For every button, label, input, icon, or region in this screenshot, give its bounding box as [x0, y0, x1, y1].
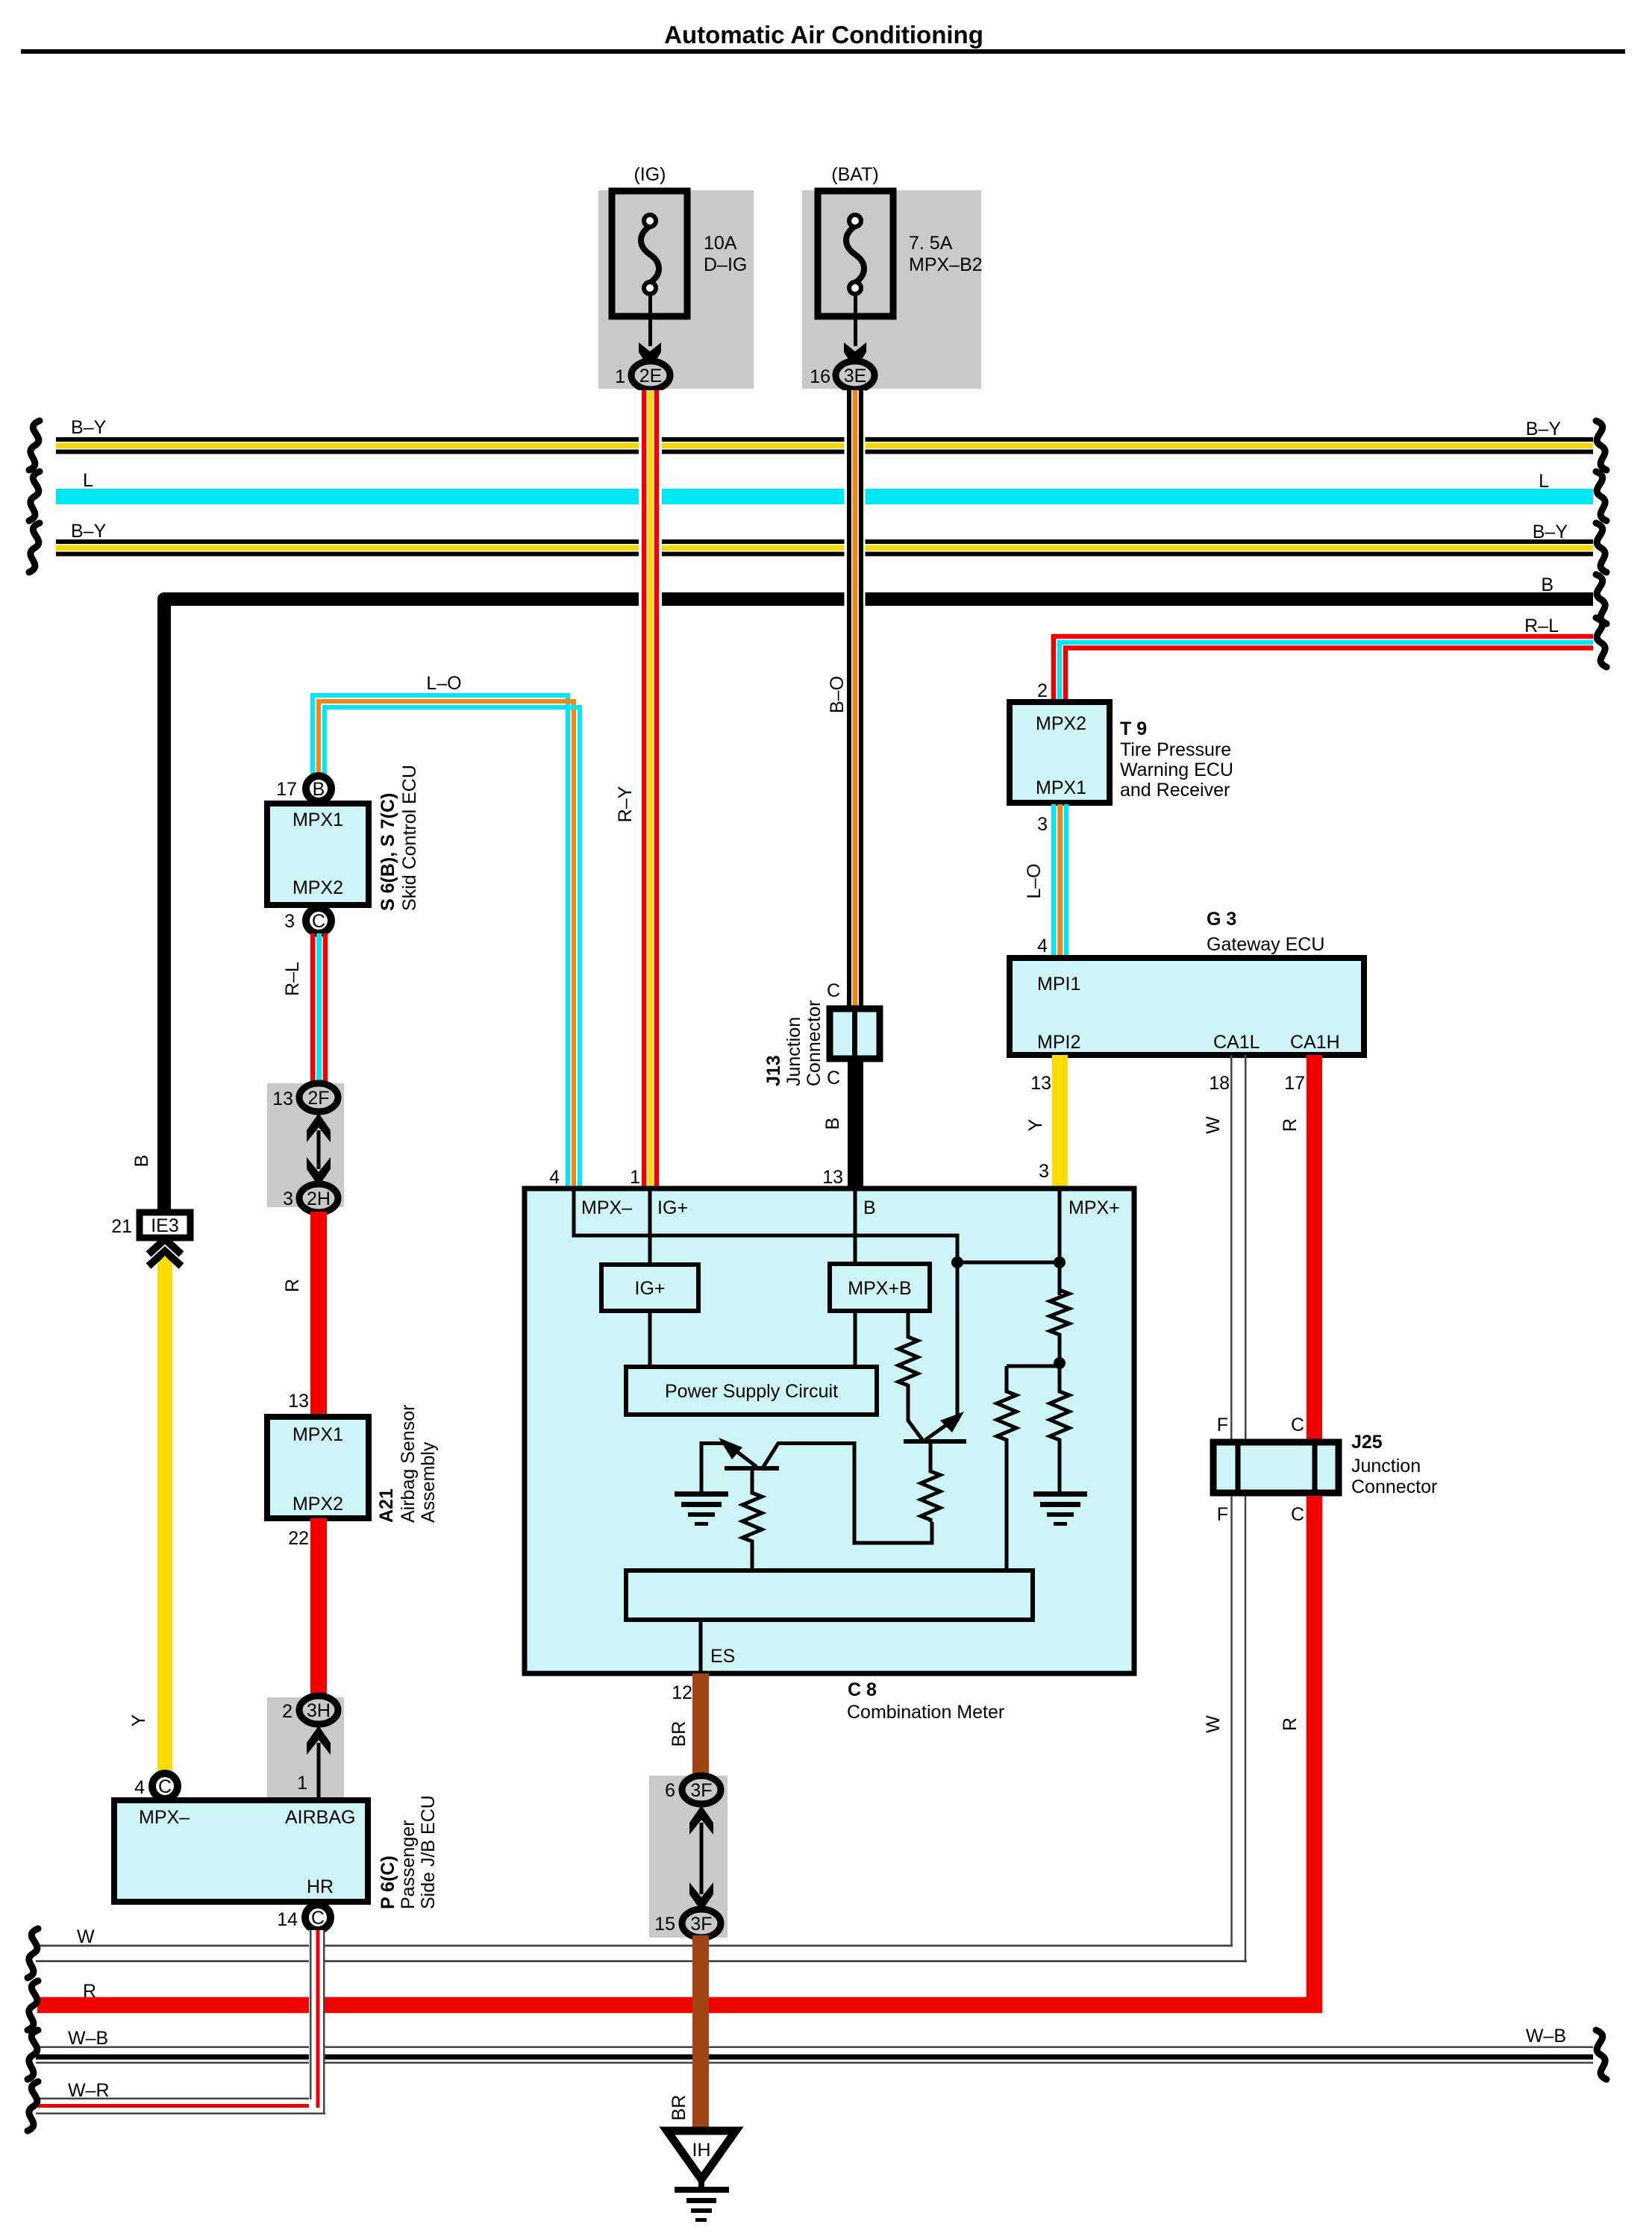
svg-text:Passenger: Passenger — [398, 1820, 419, 1909]
svg-text:P 6(C): P 6(C) — [378, 1855, 398, 1909]
fuse 10A D-IG element — [641, 215, 659, 294]
wire W from gateway CA1L to J25 — [1230, 1055, 1247, 1440]
svg-text:W–B: W–B — [1526, 2026, 1566, 2046]
ground symbol under MPX+ resistor — [1033, 1491, 1087, 1526]
passenger side J/B ECU box P6 — [114, 1800, 368, 1902]
gateway ECU box G3 — [1010, 958, 1364, 1055]
svg-text:L–O: L–O — [426, 673, 461, 694]
svg-text:B–Y: B–Y — [1533, 522, 1568, 542]
svg-text:7. 5A: 7. 5A — [909, 233, 953, 254]
svg-text:C: C — [312, 911, 325, 932]
svg-text:2H: 2H — [307, 1189, 331, 1209]
svg-text:W–R: W–R — [68, 2080, 110, 2101]
svg-text:B: B — [131, 1155, 152, 1168]
svg-text:IG+: IG+ — [657, 1197, 688, 1218]
svg-text:MPI2: MPI2 — [1037, 1032, 1080, 1053]
svg-text:L–O: L–O — [1024, 863, 1045, 898]
connector oval 3F lower — [682, 1909, 721, 1938]
squiggle left B-Y lower — [29, 523, 40, 572]
meter internal IG+ lead — [648, 1191, 652, 1265]
svg-text:R: R — [282, 1279, 303, 1292]
connector 2F 2H grey background — [267, 1083, 344, 1207]
squiggle left W — [28, 1929, 38, 1978]
svg-text:HR: HR — [307, 1876, 334, 1897]
junction dot on MPX+ — [1054, 1256, 1066, 1268]
connector circle C pin4 — [152, 1773, 178, 1799]
svg-text:and Receiver: and Receiver — [1120, 780, 1230, 801]
wire R from 2H to A21 — [310, 1212, 327, 1416]
svg-text:J13: J13 — [763, 1055, 784, 1086]
svg-text:2: 2 — [282, 1701, 292, 1722]
resistor under Q1 base — [742, 1471, 762, 1568]
svg-text:B–Y: B–Y — [71, 417, 107, 438]
wire R from J25 to R bus — [37, 1496, 1315, 2005]
airbag sensor assembly box A21 — [267, 1417, 369, 1518]
junction dot on MPX- drop — [951, 1256, 963, 1268]
squiggle right B-Y lower — [1596, 523, 1606, 572]
wire R-L from skid C to 2F — [310, 933, 328, 1083]
svg-text:Airbag Sensor: Airbag Sensor — [398, 1405, 419, 1523]
skid control ECU box S6 S7 — [267, 804, 369, 905]
svg-text:22: 22 — [288, 1528, 309, 1549]
svg-text:BR: BR — [669, 1721, 689, 1747]
svg-text:C 8: C 8 — [848, 1679, 877, 1700]
svg-text:S 6(B), S 7(C): S 6(B), S 7(C) — [378, 793, 398, 911]
svg-text:Y: Y — [128, 1714, 149, 1726]
wire Y from IE3 to P6 pin 4 — [157, 1256, 172, 1773]
wire BR from 3F to IH ground — [692, 1935, 709, 2132]
svg-text:(BAT): (BAT) — [831, 164, 878, 185]
svg-text:1: 1 — [630, 1167, 640, 1188]
svg-text:R: R — [1280, 1118, 1301, 1132]
svg-text:W: W — [1203, 1715, 1224, 1733]
svg-text:B: B — [1541, 574, 1554, 595]
svg-text:13: 13 — [1030, 1073, 1051, 1094]
ground symbol under Q1 — [675, 1491, 728, 1526]
svg-text:3H: 3H — [307, 1700, 331, 1721]
wire fuse IG lead — [648, 292, 652, 346]
svg-text:Gateway ECU: Gateway ECU — [1207, 934, 1324, 955]
svg-text:2: 2 — [1037, 680, 1048, 701]
svg-text:1: 1 — [615, 366, 625, 387]
wire R from A21 to 3H — [310, 1518, 327, 1697]
wire L-O from T9 to gateway — [1051, 804, 1069, 957]
svg-text:MPX–B2: MPX–B2 — [909, 254, 983, 275]
svg-text:MPX1: MPX1 — [1036, 777, 1086, 798]
transistor Q2 base bar — [904, 1439, 966, 1444]
svg-text:R–L: R–L — [1524, 616, 1559, 636]
svg-text:18: 18 — [1209, 1073, 1230, 1094]
squiggle right W-B — [1596, 2030, 1606, 2079]
fuse 7.5A MPX-B2 element — [846, 215, 864, 294]
ES lead — [699, 1620, 703, 1673]
double arrow between 2F and 2H — [307, 1113, 331, 1186]
junction dot on MPX+ middle — [1054, 1357, 1066, 1369]
svg-text:Combination Meter: Combination Meter — [847, 1702, 1004, 1723]
wire W from J25 to W bus — [36, 1496, 1245, 1961]
svg-text:17: 17 — [276, 779, 297, 800]
wire R from gateway CA1H to J25 — [1307, 1055, 1322, 1440]
svg-text:C: C — [1291, 1415, 1304, 1435]
svg-text:Power Supply Circuit: Power Supply Circuit — [665, 1381, 838, 1402]
combination meter box C8 — [525, 1189, 1134, 1673]
double arrow between 3F ovals — [689, 1806, 713, 1911]
connector 3H grey background — [267, 1697, 344, 1799]
svg-text:B–O: B–O — [827, 676, 848, 713]
wire airbag lead to P6 — [317, 1743, 321, 1800]
svg-text:W: W — [1203, 1116, 1224, 1134]
svg-text:4: 4 — [1037, 936, 1048, 956]
connector oval 3F upper — [682, 1776, 721, 1804]
squiggle left W-B — [28, 2030, 38, 2079]
svg-text:BR: BR — [669, 2095, 689, 2121]
squiggle right B — [1596, 574, 1606, 624]
ground IH bars — [675, 2187, 729, 2222]
svg-text:B: B — [863, 1197, 876, 1218]
connector oval 3H — [299, 1696, 338, 1724]
svg-text:B: B — [313, 779, 325, 800]
power supply circuit box — [626, 1367, 877, 1415]
lead IG+ box to power supply — [648, 1313, 652, 1365]
arrow into 2E — [639, 342, 661, 370]
svg-text:MPX+: MPX+ — [1069, 1197, 1120, 1218]
svg-text:B–Y: B–Y — [1526, 419, 1562, 439]
wire BR from meter ES to 3F — [692, 1673, 709, 1777]
svg-text:MPX2: MPX2 — [292, 1494, 343, 1515]
wire R-Y from 2E to meter IG+ — [639, 390, 662, 1186]
svg-text:Skid Control ECU: Skid Control ECU — [399, 765, 420, 911]
svg-text:G 3: G 3 — [1207, 909, 1236, 930]
meter internal B lead — [854, 1191, 857, 1265]
arrow into 3E — [844, 342, 866, 370]
bus L — [56, 489, 1593, 504]
meter internal MPX- line — [574, 1191, 957, 1421]
svg-text:Junction: Junction — [1351, 1456, 1421, 1476]
svg-text:C: C — [1291, 1504, 1304, 1525]
transistor Q2 collector resistor — [921, 1444, 940, 1522]
wire B-O from 3E to J13 — [845, 390, 866, 1006]
bus B-Y lower — [56, 539, 1593, 557]
transistor Q2 emitter arrow to MPX- line — [925, 1412, 964, 1440]
svg-text:1: 1 — [297, 1773, 307, 1794]
svg-text:15: 15 — [654, 1914, 675, 1935]
svg-text:W–B: W–B — [68, 2028, 108, 2049]
resistor R left of MPX+ — [997, 1366, 1016, 1568]
svg-text:3: 3 — [1039, 1161, 1049, 1182]
svg-text:W: W — [77, 1926, 95, 1947]
svg-text:R–L: R–L — [282, 962, 303, 996]
fuse MPX-B2 grey background — [802, 190, 981, 389]
branch MPX- to MPX+ — [957, 1261, 1060, 1265]
svg-text:Assembly: Assembly — [418, 1441, 439, 1523]
svg-text:MPI1: MPI1 — [1037, 974, 1080, 995]
svg-text:Side J/B ECU: Side J/B ECU — [418, 1795, 439, 1909]
svg-text:3: 3 — [1037, 814, 1048, 835]
svg-text:IG+: IG+ — [635, 1278, 666, 1299]
svg-text:C: C — [827, 1068, 840, 1089]
svg-text:17: 17 — [1284, 1073, 1305, 1094]
wire fuse BAT lead — [854, 292, 857, 346]
svg-text:R: R — [1280, 1717, 1301, 1731]
svg-text:CA1L: CA1L — [1213, 1032, 1260, 1053]
junction connector J13 — [830, 1009, 880, 1059]
svg-text:T 9: T 9 — [1120, 718, 1147, 739]
svg-text:MPX2: MPX2 — [292, 877, 343, 898]
svg-text:R–Y: R–Y — [615, 786, 636, 822]
chevrons below IE3 — [148, 1239, 181, 1266]
svg-text:6: 6 — [665, 1780, 675, 1801]
squiggle left R — [28, 1981, 38, 2030]
svg-text:Tire Pressure: Tire Pressure — [1120, 739, 1231, 760]
connector circle C pin14 — [305, 1905, 331, 1930]
wire BR overpass at buses — [692, 1935, 709, 2132]
svg-text:C: C — [311, 1908, 325, 1929]
svg-text:13: 13 — [272, 1089, 293, 1109]
squiggle right R-L — [1596, 618, 1606, 667]
svg-text:MPX2: MPX2 — [1036, 713, 1086, 734]
svg-text:C: C — [158, 1776, 172, 1797]
connector oval 3E — [836, 361, 875, 389]
svg-text:21: 21 — [111, 1216, 132, 1237]
wire Y from gateway MPI2 to meter MPX+ — [1052, 1055, 1068, 1186]
svg-text:3F: 3F — [690, 1780, 712, 1801]
branch to left resistor — [1007, 1365, 1060, 1368]
wire L-O from skid B up and over to meter MPX- — [313, 695, 580, 1188]
svg-text:MPX1: MPX1 — [292, 1424, 343, 1445]
svg-text:J25: J25 — [1351, 1432, 1383, 1453]
arrow up into 3H — [307, 1726, 331, 1755]
bus R-L with corner down to T9 — [1054, 636, 1593, 700]
connector oval 2E — [631, 361, 670, 389]
resistor R MPX+ lower — [1050, 1366, 1069, 1491]
svg-text:Y: Y — [1025, 1118, 1046, 1131]
lead MPX+B box to power supply — [854, 1313, 857, 1365]
svg-text:13: 13 — [822, 1167, 843, 1188]
transistor Q1 collector path to Q2 resistor — [763, 1444, 932, 1544]
fuse 10A D-IG box — [612, 191, 687, 316]
connector oval 2F — [299, 1083, 338, 1112]
svg-text:F: F — [1217, 1504, 1228, 1525]
svg-text:3: 3 — [284, 911, 295, 932]
svg-text:2F: 2F — [307, 1088, 329, 1109]
svg-text:3F: 3F — [690, 1914, 712, 1935]
wire W-R from P6 pin 14 to W-R bus — [309, 1930, 325, 2114]
svg-text:3: 3 — [283, 1189, 293, 1209]
bus W — [36, 1945, 1247, 1963]
ground IH triangle — [667, 2131, 736, 2190]
meter internal MPX+ lead — [1058, 1191, 1062, 1295]
wire B from J13 to meter — [848, 1059, 863, 1186]
svg-text:14: 14 — [277, 1909, 298, 1930]
svg-text:R: R — [83, 1981, 96, 2002]
squiggle left B-Y top — [29, 421, 40, 470]
svg-text:Junction: Junction — [783, 1017, 804, 1086]
resistor R MPX+ upper — [1050, 1268, 1069, 1360]
svg-text:MPX–: MPX– — [139, 1807, 190, 1828]
svg-text:AIRBAG: AIRBAG — [285, 1807, 355, 1828]
connector circle B — [306, 776, 331, 801]
svg-text:L: L — [83, 470, 93, 491]
squiggle right L — [1596, 472, 1606, 521]
resistor under MPX+B — [898, 1311, 923, 1441]
svg-text:B: B — [822, 1118, 843, 1130]
svg-text:C: C — [827, 980, 840, 1001]
squiggle right B-Y top — [1596, 421, 1606, 470]
transistor Q1 emitter arrow to ground — [701, 1438, 757, 1491]
svg-text:2E: 2E — [639, 366, 663, 386]
svg-text:3E: 3E — [844, 366, 867, 386]
connector 3F grey background — [649, 1776, 728, 1938]
svg-text:IE3: IE3 — [151, 1215, 179, 1236]
bus B-Y top — [56, 437, 1593, 454]
MPX+B internal box — [830, 1264, 930, 1311]
svg-text:L: L — [1539, 471, 1549, 492]
bus W-B — [36, 2046, 1593, 2064]
svg-text:IH: IH — [692, 2140, 711, 2161]
svg-text:CA1H: CA1H — [1290, 1032, 1340, 1053]
svg-text:Automatic Air Conditioning: Automatic Air Conditioning — [664, 21, 983, 48]
svg-text:Warning ECU: Warning ECU — [1120, 760, 1233, 780]
svg-text:12: 12 — [672, 1682, 692, 1703]
svg-text:Connector: Connector — [804, 1000, 825, 1086]
svg-text:(IG): (IG) — [633, 164, 666, 185]
svg-text:Connector: Connector — [1351, 1476, 1437, 1497]
tire pressure warning ECU box T9 — [1010, 702, 1110, 803]
svg-text:13: 13 — [288, 1391, 309, 1412]
bus W-R — [36, 2098, 325, 2115]
svg-text:4: 4 — [549, 1167, 560, 1188]
svg-text:ES: ES — [710, 1646, 735, 1667]
svg-text:MPX–: MPX– — [581, 1197, 632, 1218]
svg-text:10A: 10A — [704, 233, 737, 254]
connector circle C skid — [306, 908, 331, 933]
squiggle left L — [29, 472, 40, 521]
svg-text:F: F — [1217, 1415, 1228, 1435]
svg-text:4: 4 — [134, 1777, 145, 1798]
svg-text:MPX+B: MPX+B — [848, 1278, 911, 1299]
transistor Q1 base bar — [725, 1466, 779, 1471]
bus B with corner down to IE3 — [164, 599, 1593, 1209]
squiggle left W-R — [28, 2082, 38, 2131]
svg-text:16: 16 — [810, 366, 830, 387]
connector oval 2H — [299, 1184, 338, 1212]
fuse D-IG grey background — [598, 190, 754, 389]
svg-text:MPX1: MPX1 — [292, 809, 343, 830]
svg-text:A21: A21 — [376, 1488, 397, 1523]
IG+ internal box — [601, 1265, 698, 1311]
junction connector J25 — [1213, 1442, 1339, 1493]
title underline — [21, 49, 1625, 54]
svg-text:D–IG: D–IG — [704, 254, 747, 275]
fuse 7.5A MPX-B2 box — [818, 191, 893, 316]
internal bus bar box — [626, 1570, 1033, 1620]
svg-text:B–Y: B–Y — [71, 521, 107, 542]
connector IE3 — [140, 1212, 190, 1238]
